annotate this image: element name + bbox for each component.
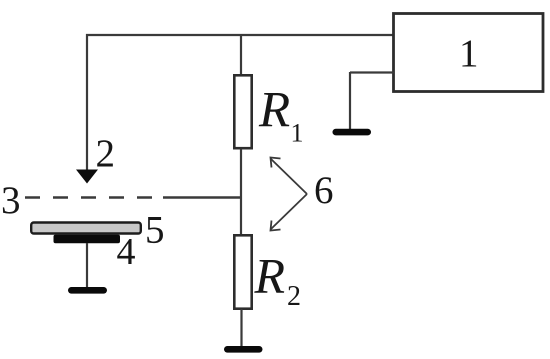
wire R2 to ground — [240, 309, 242, 347]
wire R1 to R2 — [240, 149, 242, 235]
ground plate — [68, 287, 107, 294]
svg-text:1: 1 — [291, 119, 304, 148]
ground box 1 — [333, 129, 372, 136]
wire box ground stub vertical — [349, 72, 351, 130]
arrowhead upper 6 — [271, 158, 281, 168]
pointer line upper 6 — [271, 159, 307, 194]
svg-text:2: 2 — [96, 132, 116, 175]
electrode bar 4 — [54, 235, 121, 244]
dashed line 3 — [25, 196, 158, 199]
wire box ground stub horizontal — [350, 71, 394, 73]
ground bottom — [224, 346, 263, 353]
wire top horizontal — [86, 34, 394, 36]
box unit 1 — [394, 14, 544, 92]
wire junction to R1 — [240, 34, 242, 75]
arrowhead lower 6 — [271, 221, 281, 231]
svg-text:4: 4 — [117, 231, 136, 273]
node wire solid to divider — [163, 196, 241, 198]
svg-text:R: R — [254, 248, 286, 304]
wire plate to ground — [86, 243, 88, 288]
plate 5 — [31, 223, 141, 234]
resistor R1 — [234, 75, 251, 148]
resistor R2 — [234, 235, 251, 308]
svg-text:3: 3 — [1, 179, 21, 222]
wire left vertical drop — [86, 34, 88, 172]
pointer line lower 6 — [271, 194, 307, 229]
svg-text:1: 1 — [459, 32, 479, 75]
svg-text:R: R — [258, 83, 290, 139]
svg-text:2: 2 — [287, 281, 301, 312]
svg-text:5: 5 — [145, 209, 165, 252]
svg-text:6: 6 — [314, 169, 334, 212]
arrowhead beam 2 — [76, 170, 98, 184]
